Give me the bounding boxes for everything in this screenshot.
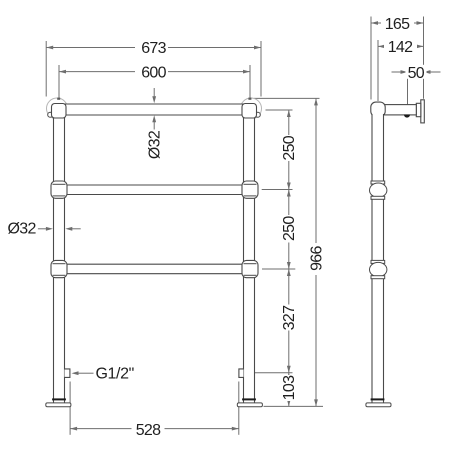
right G1/2 inlet fitting — [239, 369, 244, 378]
dimension 50 arrow left (outside, pointing left) — [424, 70, 431, 74]
svg-text:165: 165 — [385, 16, 410, 33]
dimension 327 label (rotated) — [281, 305, 296, 331]
dimension diameter 32 right arrow left — [65, 227, 72, 231]
dimension 600 line — [59, 71, 250, 73]
svg-text:327: 327 — [281, 305, 298, 330]
right post / rail 3 joint — [242, 260, 258, 277]
dimension 966 top extension line — [254, 97, 320, 99]
dimension 50 arrow right (outside, pointing right) — [401, 70, 408, 74]
dimension diameter 32 top leader upper line — [153, 88, 155, 97]
G1/2 leader line — [78, 372, 94, 374]
svg-text:G1/2": G1/2" — [96, 366, 134, 383]
svg-text:600: 600 — [141, 64, 166, 81]
svg-text:250: 250 — [281, 135, 298, 160]
dimension 50 label — [406, 65, 427, 79]
dimension diameter 32 right leader line — [72, 228, 81, 230]
dimension 600 extension line left — [58, 65, 60, 99]
600 extension stub on left ball — [57, 98, 60, 100]
svg-text:673: 673 — [141, 40, 166, 57]
right post / rail 2 joint — [242, 181, 258, 198]
dimension diameter 32 left leader line — [38, 228, 46, 230]
dimension 142 line — [378, 45, 424, 47]
right foot base plate — [237, 403, 262, 407]
dimension 165 extension line right (wall face) — [423, 17, 425, 99]
dimension 103 arrow down — [287, 399, 291, 406]
vertical dimension column: rail1 center extension line — [266, 109, 293, 111]
dimension 673 label — [135, 40, 168, 54]
dimension 528 line — [70, 428, 239, 430]
dimension 142 extension line left (post centre) — [377, 40, 379, 101]
side view: foot base plate — [366, 403, 391, 407]
dimension 165 arrow left — [371, 21, 378, 25]
dimension 142 arrow left — [378, 45, 385, 49]
dimension 327 line — [288, 269, 290, 373]
side view: rail 3 ball joint upper collar — [371, 260, 385, 263]
rail 1 (top towel rail) — [58, 104, 250, 115]
side view: arm collar at wall — [416, 103, 421, 116]
svg-text:103: 103 — [281, 375, 298, 400]
dimension 165 line — [371, 22, 424, 24]
dimension 250 lower arrow up — [287, 190, 291, 197]
left G1/2 inlet fitting — [65, 369, 70, 378]
vertical dimension column: floor extension line — [264, 405, 324, 407]
side view: post — [372, 114, 384, 403]
right foot collar — [242, 398, 256, 400]
vertical dimension column: rail2 center extension line — [262, 189, 293, 191]
right post — [244, 112, 255, 403]
dimension 673 arrow right — [254, 46, 261, 50]
front view: top right ball joint — [241, 98, 262, 119]
svg-text:142: 142 — [388, 39, 413, 56]
dimension 600 extension line right — [249, 65, 251, 99]
dimension 250 lower label (rotated) — [281, 215, 296, 243]
dimension 103 line — [288, 373, 290, 407]
svg-text:250: 250 — [281, 216, 298, 241]
front view: top left union nut detail — [48, 112, 53, 117]
svg-text:966: 966 — [309, 246, 326, 271]
left post / rail 2 joint — [51, 181, 67, 198]
vertical dimension column: inlet center extension line — [247, 372, 293, 374]
dimension 50 outside leader left — [392, 71, 401, 73]
left post — [54, 112, 65, 403]
front view: top left ball joint — [47, 98, 68, 119]
dimension 250 lower line — [288, 190, 290, 270]
dimension 327 arrow up — [287, 269, 291, 276]
dimension 673 line — [46, 47, 261, 49]
front view: top right union nut detail — [255, 112, 260, 117]
front view: top right joint body — [242, 104, 257, 119]
side view: air vent nut — [404, 115, 410, 118]
dimension 600 arrow right — [243, 70, 250, 74]
dimension 165 arrow right — [417, 21, 424, 25]
dimension 250 upper line — [288, 110, 290, 190]
dimension 528 arrow left — [70, 427, 77, 431]
dimension diameter 32 top arrow up — [152, 115, 156, 122]
side view: rail 2 ball joint upper collar — [371, 181, 385, 184]
dimension 103 arrow up — [287, 373, 291, 380]
dimension 165 extension line left — [370, 17, 372, 100]
dimension 966 label (rotated) — [309, 243, 324, 275]
front view: top left joint body — [52, 104, 67, 119]
dimension 528 arrow right — [232, 427, 239, 431]
dimension 250 upper label (rotated) — [281, 135, 296, 161]
side view: top ball joint — [371, 102, 385, 116]
svg-text:Ø32: Ø32 — [8, 221, 37, 238]
dimension 142 label — [384, 39, 417, 53]
dimension 673 extension line left — [45, 41, 47, 97]
dimension 966 line — [315, 98, 317, 406]
left foot collar — [52, 398, 66, 400]
dimension 528 extension line left — [69, 382, 71, 435]
dimension 250 upper arrow up — [287, 110, 291, 117]
dimension 673 arrow left — [46, 46, 53, 50]
rail 2 (middle towel rail) — [59, 185, 249, 195]
dimension diameter 32 top leader lower line — [153, 122, 155, 130]
dimension 50 extension line left (air vent centre) — [407, 66, 409, 114]
left post / rail 3 joint — [51, 260, 67, 277]
left foot base plate — [46, 403, 71, 407]
dimension 103 label (rotated) — [281, 375, 296, 401]
dimension 600 arrow left — [59, 70, 66, 74]
side view: horizontal arm — [384, 105, 416, 115]
dimension 966 arrow up — [314, 98, 318, 105]
dimension 327 arrow down — [287, 366, 291, 373]
rail 3 (bottom towel rail) — [59, 264, 249, 274]
svg-text:528: 528 — [136, 422, 161, 439]
dimension 142 arrow right — [417, 45, 424, 49]
side view: rail 3 ball joint — [370, 262, 387, 276]
G1/2 arrow left — [72, 371, 79, 375]
dimension diameter 32 left arrow right — [46, 227, 53, 231]
dimension 673 extension line right — [260, 41, 262, 97]
dimension 50 outside leader right — [431, 71, 441, 73]
dimension 600 label — [135, 64, 168, 78]
svg-text:50: 50 — [408, 65, 425, 82]
side view: wall plate — [421, 100, 425, 123]
dimension 528 extension line right — [238, 382, 240, 435]
side view: rail 3 ball joint lower collar — [371, 276, 385, 279]
dimension 250 lower arrow down — [287, 262, 291, 269]
dimension 966 arrow down — [314, 399, 318, 406]
vertical dimension column: rail3 center extension line — [262, 268, 295, 270]
600 extension stub on right ball — [248, 98, 251, 100]
side view: foot collar — [371, 398, 385, 400]
dimension 165 label — [381, 16, 414, 30]
side view: rail 2 ball joint — [370, 183, 387, 197]
dimension diameter 32 top arrow down — [152, 96, 156, 103]
side view: rail 2 ball joint lower collar — [371, 196, 385, 199]
dimension 528 label — [132, 422, 165, 436]
dimension 250 upper arrow down — [287, 183, 291, 190]
svg-text:Ø32: Ø32 — [146, 130, 163, 159]
